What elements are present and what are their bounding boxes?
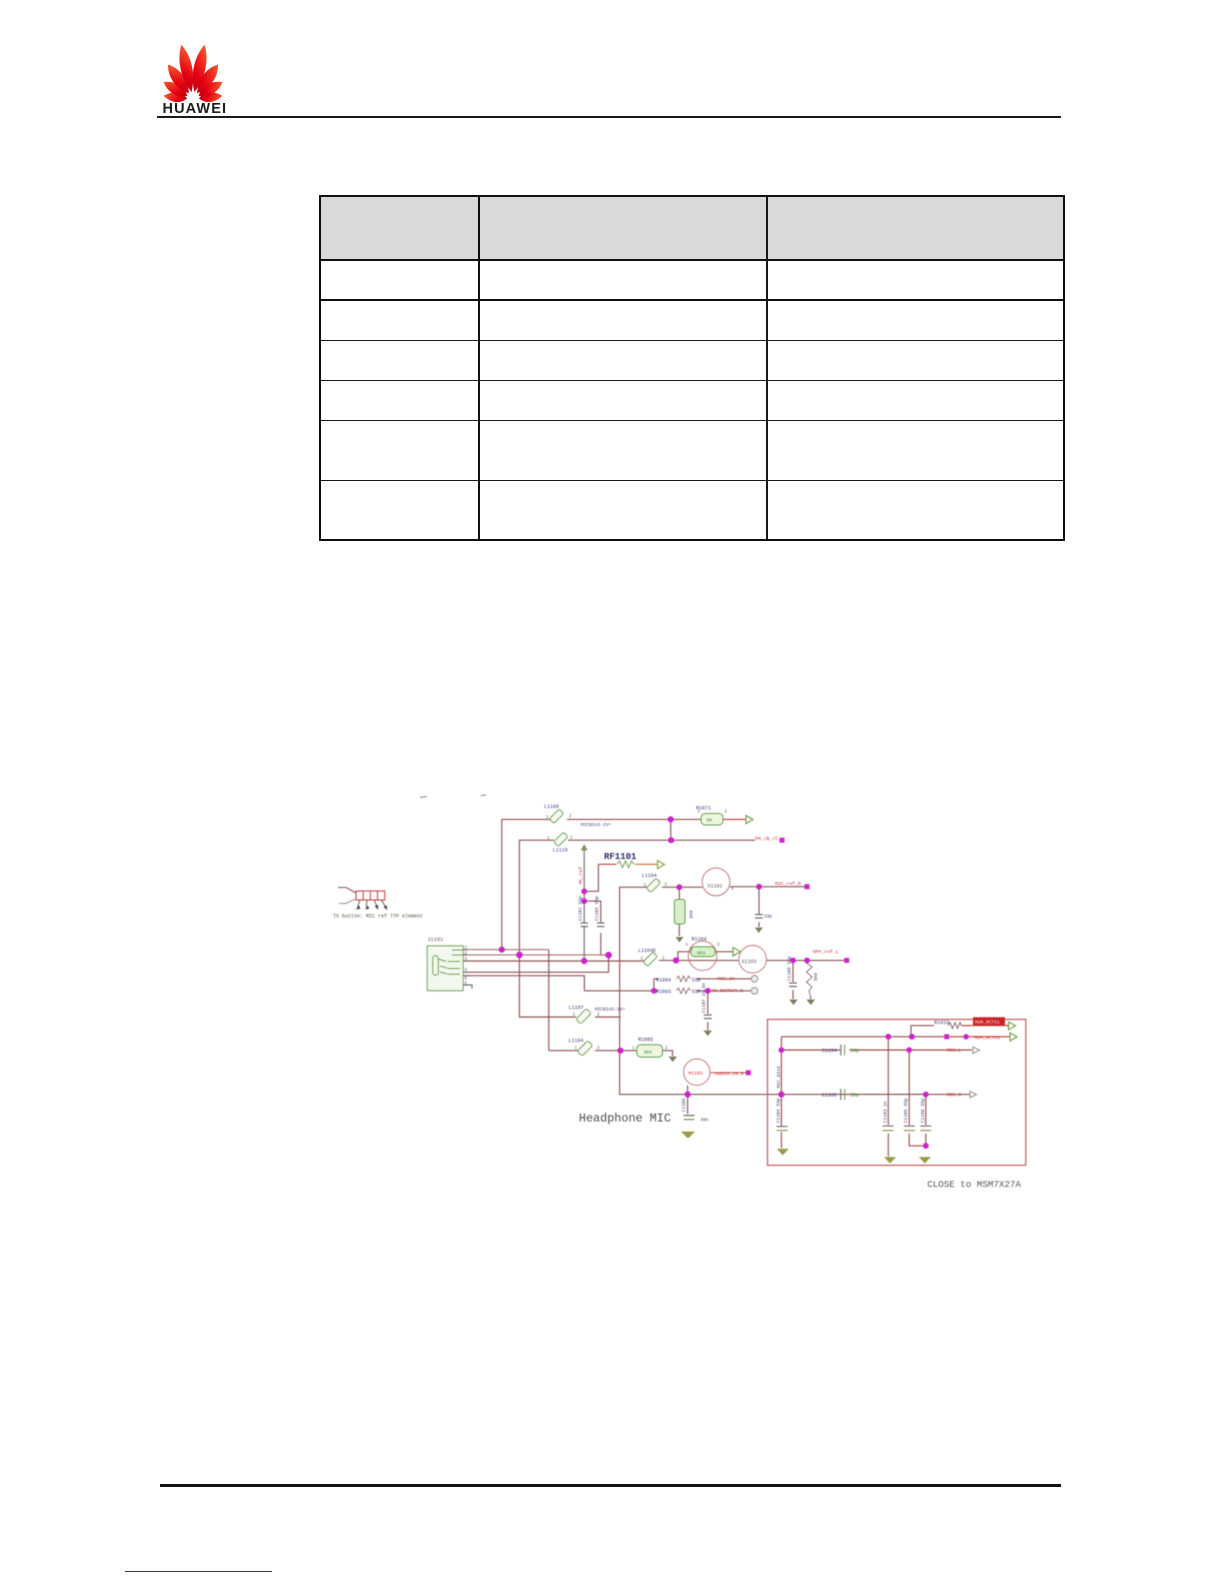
svg-text:2: 2 [569,815,572,819]
svg-text:39n: 39n [701,1118,709,1123]
svg-text:2: 2 [717,944,720,948]
svg-text:C1108 33p: C1108 33p [787,956,793,981]
svg-text:Headphone MIC: Headphone MIC [579,1112,671,1126]
svg-text:R1094: R1094 [656,978,671,984]
svg-text:R1016: R1016 [934,1020,949,1026]
svg-text:L1104: L1104 [568,1038,583,1044]
svg-text:M1101: M1101 [689,1071,704,1077]
svg-text:MIC_ref_R: MIC_ref_R [775,881,801,887]
svg-text:AUDIO_IN_R: AUDIO_IN_R [715,1071,744,1077]
svg-text:MDM_RCTX2: MDM_RCTX2 [974,1035,1000,1041]
svg-text:5K6: 5K6 [689,910,695,919]
svg-text:C1102: C1102 [822,1093,837,1099]
svg-text:R1085: R1085 [638,1037,653,1043]
svg-text:L1104E: L1104E [638,948,656,954]
svg-text:X1101: X1101 [708,883,723,889]
svg-text:HS_DETECT_N: HS_DETECT_N [712,988,744,994]
svg-text:4: 4 [731,888,734,892]
svg-text:MDM_RCTX1: MDM_RCTX1 [975,1020,1000,1026]
svg-text:C1107 15.8n: C1107 15.8n [701,982,707,1013]
svg-text:L1107: L1107 [569,1005,584,1011]
svg-text:PM_/B_/C: PM_/B_/C [755,836,778,842]
svg-text:L1109: L1109 [544,804,559,810]
svg-text:2: 2 [725,811,728,815]
svg-text:C1101 33p: C1101 33p [578,896,584,921]
svg-text:MIC_2V: MIC_2V [718,976,735,982]
svg-text:31R: 31R [692,989,701,995]
svg-text:39p: 39p [850,1093,859,1099]
svg-text:RF1101: RF1101 [604,852,637,862]
svg-text:0R3: 0R3 [697,950,706,956]
svg-text:0R1: 0R1 [644,1049,653,1055]
svg-text:C1104: C1104 [822,1048,837,1054]
svg-text:C1105: C1105 [681,1098,687,1112]
svg-text:MICBIAS-2V+: MICBIAS-2V+ [595,1007,626,1013]
svg-text:ML_ref: ML_ref [578,867,584,884]
svg-text:C1104 33p: C1104 33p [775,1098,781,1123]
svg-text:5: 5 [465,978,468,982]
svg-text:J1101: J1101 [427,937,443,943]
svg-text:C1106 39p: C1106 39p [920,1098,926,1123]
svg-text:MIC_BIAS: MIC_BIAS [776,1066,782,1088]
svg-text:L1104: L1104 [642,873,657,879]
svg-text:REG_L: REG_L [947,1048,962,1054]
svg-text:R1104: R1104 [692,937,707,943]
svg-text:1: 1 [686,944,689,948]
svg-text:HPH_ref_L: HPH_ref_L [813,949,839,955]
svg-text:L1110: L1110 [553,848,568,854]
svg-text:33p: 33p [764,915,772,920]
svg-text:C1103 1n: C1103 1n [882,1101,888,1123]
svg-text:CLOSE to MSM7X27A: CLOSE to MSM7X27A [927,1179,1021,1190]
svg-text:TX button: MIC ref TTP element: TX button: MIC ref TTP element [333,914,423,920]
svg-text:31R: 31R [692,978,701,984]
svg-text:R1093: R1093 [656,989,671,995]
svg-text:REG_R: REG_R [947,1092,962,1098]
svg-text:C1102 33p: C1102 33p [594,896,600,921]
svg-text:5K6: 5K6 [813,972,819,981]
svg-text:39p: 39p [850,1048,859,1054]
svg-text:X1103: X1103 [742,959,757,965]
svg-text:0R: 0R [707,818,713,824]
svg-text:MICBIAS-2V+: MICBIAS-2V+ [581,822,612,828]
svg-text:C1105 39p: C1105 39p [903,1098,909,1123]
